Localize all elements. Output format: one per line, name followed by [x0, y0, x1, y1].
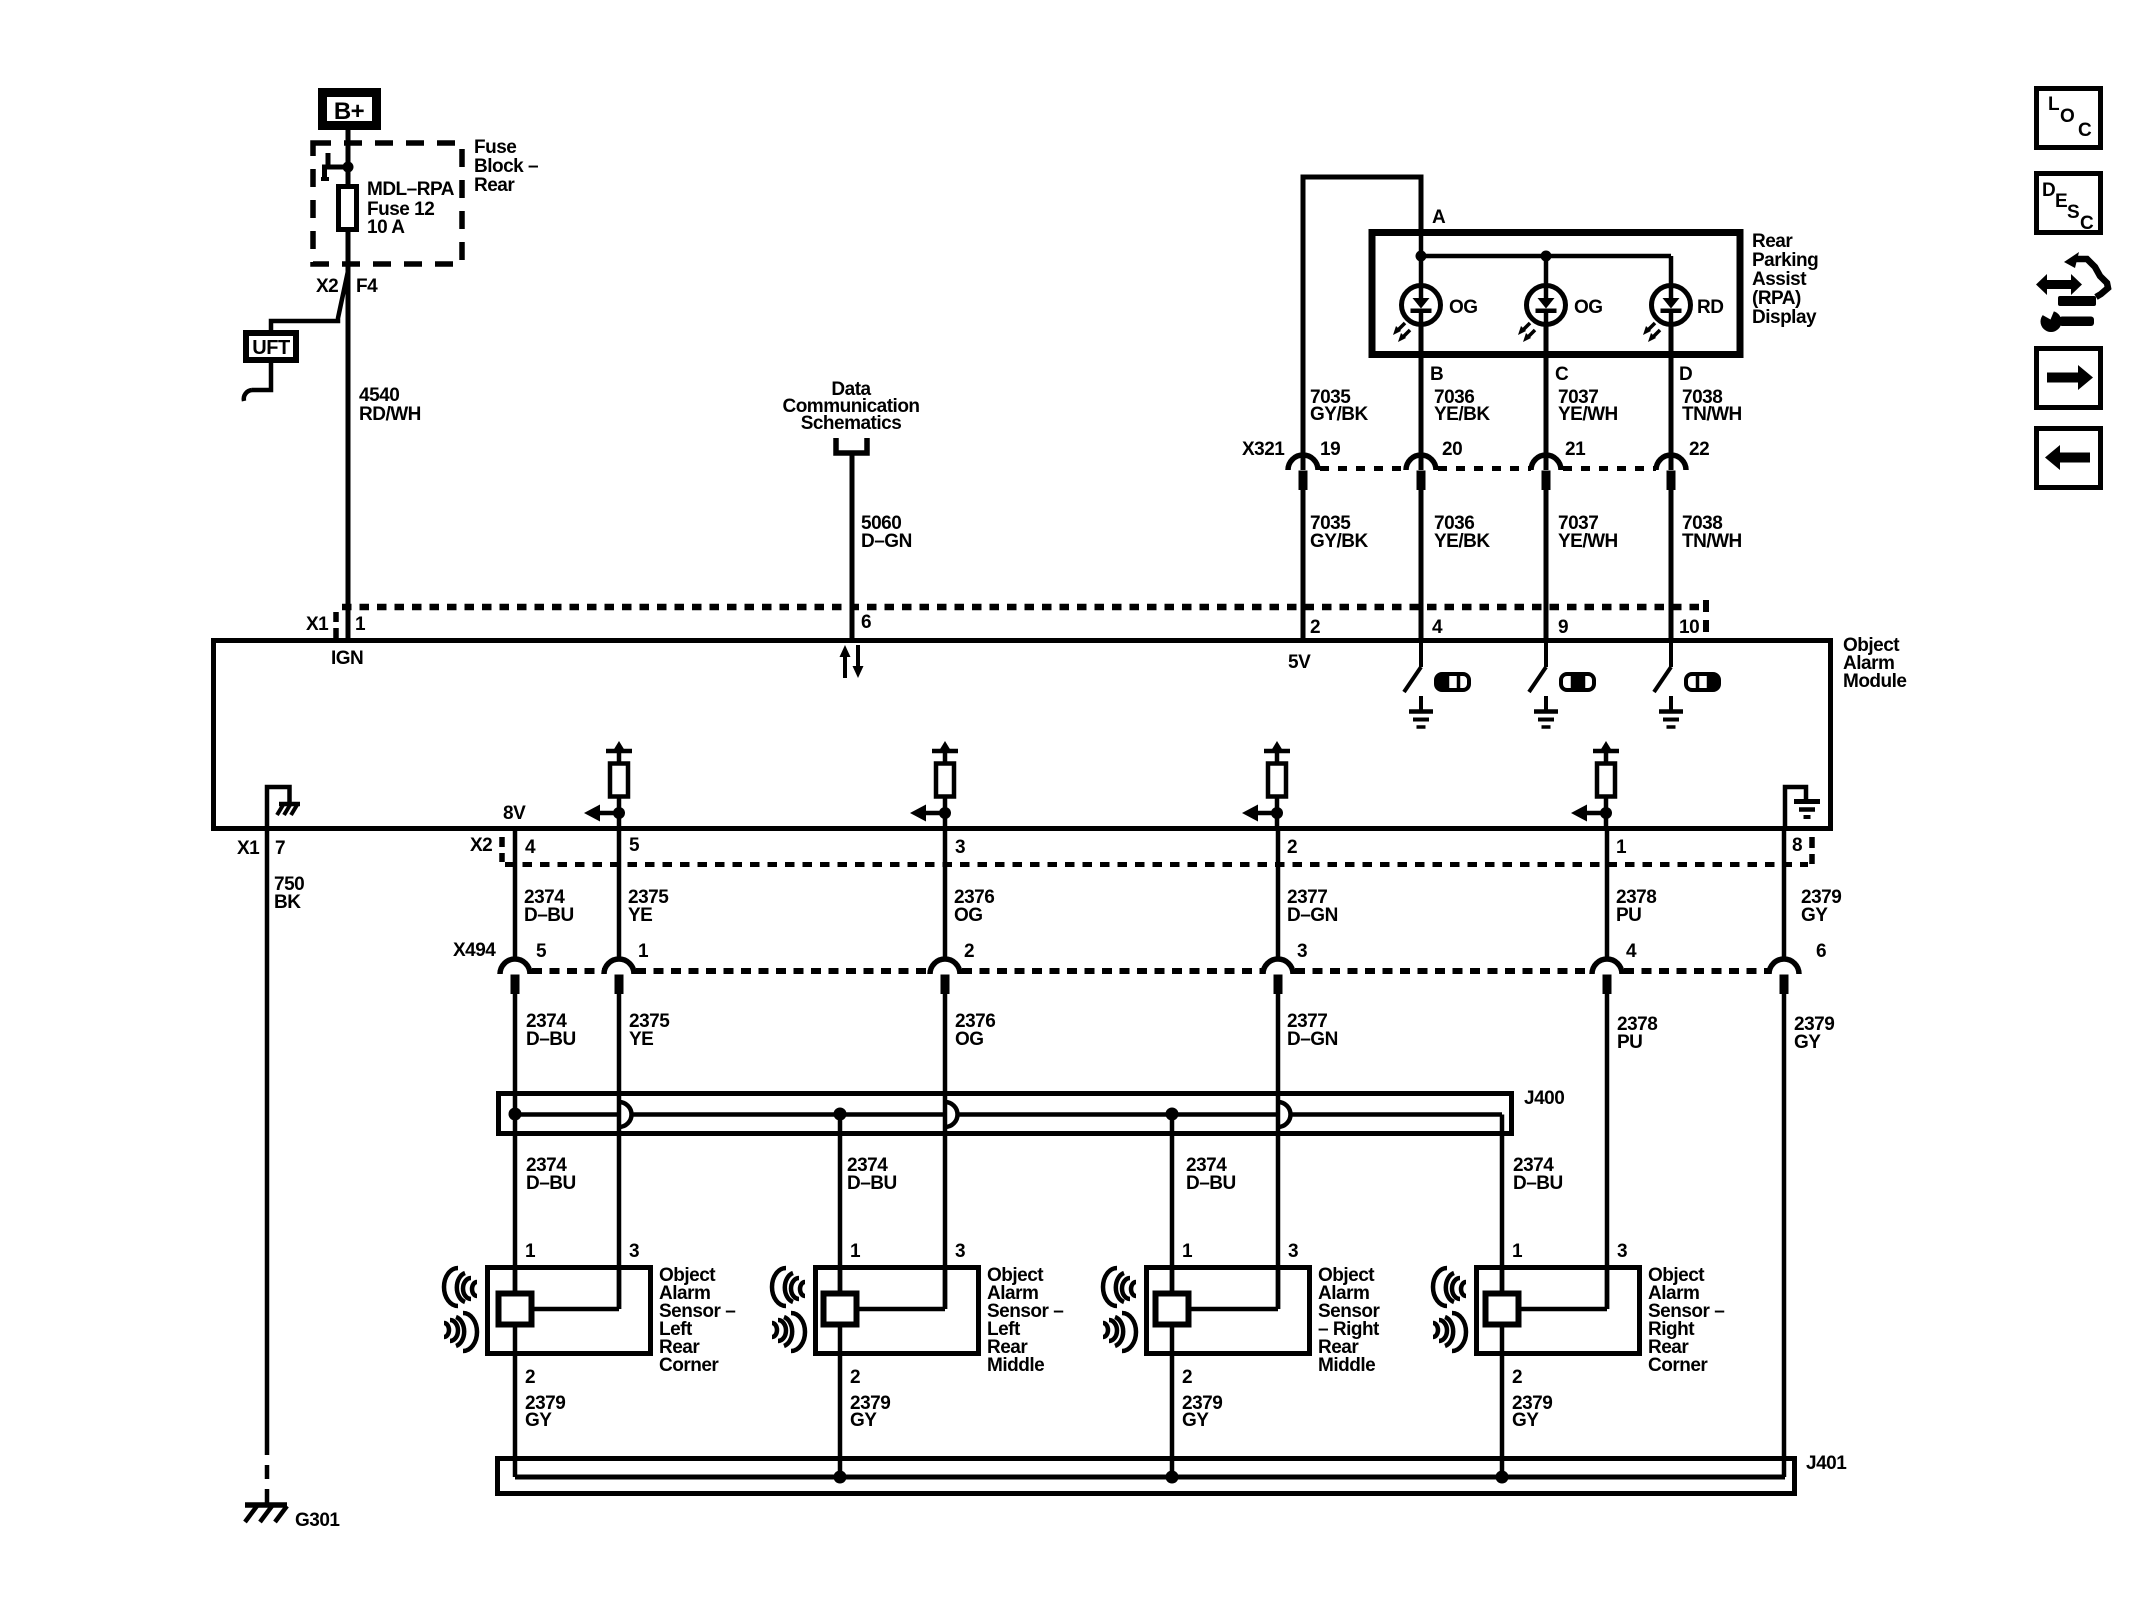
label MDL-RPA Fuse 12 10 A — [367, 179, 455, 238]
svg-text:L: L — [2048, 94, 2060, 115]
pin 2 label sensor Left Rear Corner — [525, 1367, 535, 1388]
svg-text:D: D — [2042, 180, 2056, 201]
junction dot J400 branch sensor 3 — [1166, 1108, 1179, 1121]
svg-text:3: 3 — [629, 1241, 639, 1262]
wire 7038 D display to X321-22 — [1669, 355, 1674, 470]
svg-text:7: 7 — [275, 838, 285, 859]
wire 7035 GY/BK to module — [1301, 488, 1306, 640]
svg-text:GY: GY — [1182, 1410, 1209, 1431]
icon wrench and pointer — [2036, 252, 2108, 332]
svg-text:A: A — [1432, 207, 1446, 228]
pin 8 label X2 — [1792, 835, 1802, 856]
svg-text:PU: PU — [1616, 905, 1641, 926]
label F4 pin — [356, 276, 378, 297]
label 2374 D-BU (X494 row) — [526, 1011, 576, 1050]
svg-text:Middle: Middle — [987, 1355, 1044, 1376]
wire pin1 inside sensor Left Rear Corner — [513, 1265, 518, 1293]
sensor box Object Alarm Sensor - Left Rear Corner — [488, 1268, 651, 1354]
resistor sensor drive 3 with tap arrow — [1242, 741, 1290, 829]
label 2377 D-GN (X2 row) — [1287, 887, 1338, 926]
svg-text:C: C — [2078, 120, 2092, 141]
svg-text:D–GN: D–GN — [1287, 1029, 1338, 1050]
svg-text:D–BU: D–BU — [526, 1029, 576, 1050]
connector X2 right bracket — [1809, 837, 1815, 864]
svg-text:GY: GY — [1512, 1410, 1539, 1431]
pin 2 label sensor Right Rear Middle — [1182, 1367, 1192, 1388]
svg-text:D–BU: D–BU — [1186, 1173, 1236, 1194]
label 7036 YE/BK upper — [1434, 387, 1490, 425]
label 8V — [503, 803, 526, 824]
label 2379 GY (X494 row) — [1794, 1014, 1834, 1053]
svg-text:2: 2 — [525, 1367, 535, 1388]
label 2378 PU (X2 row) — [1616, 887, 1656, 926]
wire 7037 C display to X321-21 — [1544, 355, 1549, 470]
svg-text:X1: X1 — [237, 838, 260, 859]
svg-text:8V: 8V — [503, 803, 526, 824]
resistor sensor drive 4 with tap arrow — [1571, 741, 1619, 829]
svg-text:Module: Module — [1843, 671, 1907, 692]
wire 2379 GY sensor Right Rear Middle to J401 — [1170, 1327, 1175, 1477]
LED lamp OG left (first indicator) — [1393, 286, 1441, 356]
off-page bracket for data link — [836, 438, 867, 453]
pin 3 label sensor Right Rear Middle — [1288, 1241, 1298, 1262]
label 7037 YE/WH upper — [1558, 387, 1618, 425]
connector X494 pin 1 terminal — [604, 941, 649, 994]
wire pin3 inside sensor Left Rear Middle — [856, 1265, 945, 1309]
splice pack J401 housing — [498, 1459, 1795, 1494]
ultrasonic waves icon Left Rear Middle — [772, 1268, 805, 1351]
svg-text:YE/BK: YE/BK — [1434, 404, 1490, 425]
svg-text:8: 8 — [1792, 835, 1802, 856]
resistor sensor drive 1 with tap arrow — [584, 741, 632, 829]
wire 2376 OG module to X494 — [943, 829, 948, 960]
wire UFT stub with hook — [244, 363, 271, 401]
wire 2374 D-BU module to X494 — [513, 829, 518, 960]
label node B — [1430, 364, 1443, 385]
connector X494 dashed gang line — [532, 968, 1769, 974]
connector X321 pin 20 terminal — [1406, 439, 1462, 490]
wire 2375 YE X494 to sensor 1 pin 3 — [617, 992, 622, 1309]
label Object Alarm Module — [1843, 635, 1907, 692]
ultrasonic waves icon Left Rear Corner — [444, 1268, 477, 1351]
label 2374 D-BU (X2 row) — [524, 887, 574, 926]
label 2374 D-BU branch 4 — [1513, 1155, 1563, 1194]
svg-text:9: 9 — [1558, 617, 1568, 638]
label RD — [1697, 297, 1723, 318]
svg-text:C: C — [1555, 364, 1569, 385]
pin 1 label sensor Left Rear Corner — [525, 1241, 536, 1262]
svg-text:Corner: Corner — [659, 1355, 719, 1376]
label 2374 D-BU branch 1 — [526, 1155, 576, 1194]
svg-text:Schematics: Schematics — [801, 413, 902, 434]
svg-text:GY/BK: GY/BK — [1310, 531, 1368, 552]
pin 3 label sensor Right Rear Corner — [1617, 1241, 1627, 1262]
svg-text:OG: OG — [955, 1029, 984, 1050]
wire pin3 inside sensor Right Rear Middle — [1188, 1265, 1278, 1309]
wire pin3 inside sensor Right Rear Corner — [1518, 1265, 1607, 1309]
svg-text:MDL–RPA: MDL–RPA — [367, 179, 455, 200]
LED lamp RD right (third indicator) — [1643, 286, 1691, 356]
svg-text:Block –: Block – — [474, 156, 538, 177]
label 2377 D-GN (X494 row) — [1287, 1011, 1338, 1050]
svg-text:1: 1 — [638, 941, 649, 962]
power symbol B+ battery feed box — [323, 93, 377, 126]
svg-text:TN/WH: TN/WH — [1682, 531, 1742, 552]
svg-text:J400: J400 — [1524, 1088, 1564, 1109]
wire pin1 inside sensor Right Rear Corner — [1500, 1265, 1505, 1293]
pin 2 label sensor Left Rear Middle — [850, 1367, 860, 1388]
wire 2377 D-GN X494 to sensor 3 pin 3 — [1276, 992, 1281, 1309]
wire pin3 inside sensor Left Rear Corner — [531, 1265, 619, 1309]
pin 1 label sensor Left Rear Middle — [850, 1241, 861, 1262]
label X1 top — [306, 614, 329, 635]
label 4540 RD/WH — [359, 385, 421, 425]
junction node to LED2 — [1541, 251, 1552, 262]
svg-text:1: 1 — [525, 1241, 536, 1262]
svg-text:D–GN: D–GN — [861, 531, 912, 552]
svg-text:E: E — [2055, 191, 2068, 212]
svg-text:X2: X2 — [470, 835, 492, 856]
wire 2379 GY sensor Left Rear Corner to J401 — [513, 1327, 518, 1477]
connector X321 pin 22 terminal — [1656, 439, 1709, 490]
svg-text:X494: X494 — [453, 940, 496, 961]
svg-text:2: 2 — [964, 941, 974, 962]
label 2379 GY below sensor Right Rear Corner — [1512, 1393, 1552, 1431]
label 7036 YE/BK lower — [1434, 513, 1490, 552]
svg-text:4: 4 — [1432, 617, 1443, 638]
svg-text:21: 21 — [1565, 439, 1586, 460]
svg-text:2: 2 — [1182, 1367, 1192, 1388]
data link down arrow — [853, 645, 864, 678]
svg-text:GY: GY — [1801, 905, 1828, 926]
connector X1 top right end bracket — [1703, 600, 1709, 632]
svg-text:RD: RD — [1697, 297, 1723, 318]
connector X321 pin 19 terminal — [1288, 439, 1340, 490]
svg-text:GY: GY — [1794, 1032, 1821, 1053]
label text sensor Left Rear Middle — [987, 1265, 1063, 1376]
pin 7 label — [275, 838, 285, 859]
junction dot J401 sensor 4 — [1496, 1471, 1509, 1484]
data link up arrow — [840, 645, 851, 678]
svg-text:Parking: Parking — [1752, 250, 1818, 271]
svg-text:GY: GY — [525, 1410, 552, 1431]
display box Rear Parking Assist RPA Display — [1372, 233, 1740, 355]
svg-text:10 A: 10 A — [367, 217, 405, 238]
wire 2374 D-BU X494 to J400 and sensor 1 pin 1 — [513, 992, 518, 1293]
svg-text:Rear: Rear — [474, 175, 515, 196]
module internal chassis ground (pin X1-7) — [267, 787, 300, 829]
fuse F4 MDL-RPA body — [339, 187, 357, 230]
pin 2 label X1 — [1310, 617, 1320, 638]
switch and mid indicator (pin 9 input) — [1529, 643, 1594, 727]
svg-text:RD/WH: RD/WH — [359, 404, 421, 425]
label 2375 YE (X494 row) — [629, 1011, 670, 1050]
svg-text:D–BU: D–BU — [1513, 1173, 1563, 1194]
sensor transducer square Left Rear Corner — [499, 1294, 532, 1325]
pin 10 label X1 — [1679, 617, 1699, 638]
pin 4 label X2 — [525, 837, 536, 858]
svg-text:4: 4 — [525, 837, 536, 858]
sensor box Object Alarm Sensor - Right Rear Corner — [1477, 1268, 1640, 1354]
svg-text:GY/BK: GY/BK — [1310, 404, 1368, 425]
pin 9 label X1 — [1558, 617, 1568, 638]
svg-text:4: 4 — [1626, 941, 1637, 962]
svg-text:2: 2 — [850, 1367, 860, 1388]
connector X494 pin 4 terminal — [1592, 941, 1637, 994]
svg-text:OG: OG — [1574, 297, 1603, 318]
svg-text:B: B — [1430, 364, 1443, 385]
svg-text:1: 1 — [1512, 1241, 1523, 1262]
svg-text:IGN: IGN — [331, 648, 363, 669]
label node C — [1555, 364, 1569, 385]
label connector X321 — [1242, 439, 1285, 460]
svg-text:Rear: Rear — [1752, 231, 1793, 252]
icon box DESC — [2037, 174, 2101, 235]
wire 2374 D-BU J400 to sensor 2 pin 1 — [838, 1114, 843, 1293]
wire 2374 D-BU J400 to sensor 4 pin 1 — [1500, 1133, 1505, 1293]
label connector X494 — [453, 940, 496, 961]
svg-text:S: S — [2067, 202, 2080, 223]
icon box forward arrow — [2037, 349, 2101, 408]
connector X494 pin 6 terminal — [1769, 941, 1826, 994]
connector X494 pin 2 terminal — [930, 941, 974, 994]
svg-text:3: 3 — [955, 837, 965, 858]
svg-text:Display: Display — [1752, 307, 1817, 328]
splice J400 internal bus wire — [515, 1102, 1502, 1135]
wire pin1 inside sensor Left Rear Middle — [838, 1265, 843, 1293]
label 2379 GY below sensor Right Rear Middle — [1182, 1393, 1222, 1431]
label 7038 TN/WH upper — [1682, 387, 1742, 425]
label 5V — [1288, 652, 1311, 673]
label 2378 PU (X494 row) — [1617, 1014, 1657, 1053]
splice J401 internal bus wire — [515, 1475, 1785, 1480]
wire 7036 YE/BK to module — [1419, 488, 1424, 640]
wire B+ to fuse — [346, 130, 351, 186]
svg-text:2: 2 — [1512, 1367, 1522, 1388]
svg-text:YE: YE — [629, 1029, 653, 1050]
svg-text:10: 10 — [1679, 617, 1699, 638]
svg-text:1: 1 — [355, 614, 366, 635]
wire branch to UFT — [271, 271, 348, 331]
svg-text:J401: J401 — [1806, 1453, 1847, 1474]
svg-text:D–GN: D–GN — [1287, 905, 1338, 926]
label 7035 GY/BK upper — [1310, 387, 1368, 425]
svg-text:O: O — [2060, 106, 2075, 127]
svg-text:3: 3 — [1297, 941, 1307, 962]
svg-text:19: 19 — [1320, 439, 1340, 460]
pin 2 label X2 — [1287, 837, 1297, 858]
svg-text:UFT: UFT — [252, 337, 290, 359]
label X1 bottom — [237, 838, 260, 859]
wire 7036 B display to X321-20 — [1419, 355, 1424, 470]
label 2376 OG (X494 row) — [955, 1011, 995, 1050]
pin 3 label sensor Left Rear Middle — [955, 1241, 965, 1262]
label text sensor Right Rear Middle — [1318, 1265, 1381, 1376]
svg-text:C: C — [2080, 213, 2094, 234]
svg-text:5: 5 — [536, 941, 547, 962]
label 2379 GY below sensor Left Rear Middle — [850, 1393, 890, 1431]
connector X321 pin 21 terminal — [1531, 439, 1586, 490]
wire 2378 PU module to X494 — [1605, 829, 1610, 960]
svg-text:X321: X321 — [1242, 439, 1285, 460]
label 7038 TN/WH lower — [1682, 513, 1742, 552]
wire fuse to module pin X1-1 — [346, 229, 351, 640]
label OG 1 — [1449, 297, 1478, 318]
label Data Communication Schematics — [782, 379, 919, 434]
svg-text:4540: 4540 — [359, 385, 399, 406]
splice pack J400 housing — [499, 1094, 1512, 1134]
wire 750 BK dashed section — [265, 1441, 270, 1509]
svg-text:D: D — [1679, 364, 1692, 385]
icon box LOC — [2037, 89, 2101, 148]
wire 7035 top run — [1303, 177, 1421, 470]
svg-text:3: 3 — [955, 1241, 965, 1262]
pin 6 label X1 — [861, 612, 871, 633]
svg-text:6: 6 — [1816, 941, 1826, 962]
junction dot J401 sensor 3 — [1166, 1471, 1179, 1484]
label IGN — [331, 648, 363, 669]
label node D — [1679, 364, 1692, 385]
pin 5 label X2 — [629, 835, 640, 856]
svg-text:OG: OG — [1449, 297, 1478, 318]
svg-text:D–BU: D–BU — [524, 905, 574, 926]
svg-text:YE/BK: YE/BK — [1434, 531, 1490, 552]
fuse clip hook symbol — [321, 153, 354, 179]
pin 3 label sensor Left Rear Corner — [629, 1241, 639, 1262]
label text sensor Right Rear Corner — [1648, 1265, 1724, 1376]
wire 2379 GY sensor Right Rear Corner to J401 — [1500, 1327, 1505, 1477]
label Rear Parking Assist (RPA) Display — [1752, 231, 1818, 328]
svg-text:GY: GY — [850, 1410, 877, 1431]
svg-text:2: 2 — [1310, 617, 1320, 638]
pin 1 label X2 — [1616, 837, 1627, 858]
wire 5060 D-GN to module pin X1-6 — [850, 453, 855, 640]
module box Object Alarm Module — [214, 641, 1831, 829]
switch and far indicator (pin 10 input) — [1654, 643, 1719, 727]
wire 2379 GY sensor Left Rear Middle to J401 — [838, 1327, 843, 1477]
wire pin1 inside sensor Right Rear Middle — [1170, 1265, 1175, 1293]
switch and near indicator (pin 4 input) — [1404, 643, 1469, 727]
svg-text:5: 5 — [629, 835, 640, 856]
label 2374 D-BU branch 2 — [847, 1155, 897, 1194]
svg-text:OG: OG — [954, 905, 983, 926]
svg-text:22: 22 — [1689, 439, 1709, 460]
svg-text:D–BU: D–BU — [847, 1173, 897, 1194]
svg-text:1: 1 — [850, 1241, 861, 1262]
svg-text:F4: F4 — [356, 276, 378, 297]
junction dot J400 at 2374 feed — [509, 1108, 522, 1121]
sensor box Object Alarm Sensor - Left Rear Middle — [816, 1268, 979, 1354]
connector X2 dashed gang line — [505, 862, 1808, 867]
svg-text:1: 1 — [1182, 1241, 1193, 1262]
svg-text:YE/WH: YE/WH — [1558, 531, 1618, 552]
label 7037 YE/WH lower — [1558, 513, 1618, 552]
resistor sensor drive 2 with tap arrow — [910, 741, 958, 829]
pin 1 label sensor Right Rear Corner — [1512, 1241, 1523, 1262]
ultrasonic waves icon Right Rear Corner — [1433, 1268, 1466, 1351]
junction node wire A to LED1 — [1416, 251, 1427, 262]
svg-text:G301: G301 — [295, 1510, 340, 1531]
label node A — [1432, 207, 1446, 228]
wire 2374 D-BU J400 to sensor 3 pin 1 — [1170, 1114, 1175, 1293]
wire 2377 D-GN module to X494 — [1276, 829, 1281, 960]
svg-text:6: 6 — [861, 612, 871, 633]
label OG 2 — [1574, 297, 1603, 318]
label 750 BK — [274, 874, 304, 913]
label 5060 D-GN — [861, 513, 912, 552]
connector X1 top left end bracket — [333, 612, 339, 638]
label X2 bottom — [470, 835, 492, 856]
connector X1 top dashed gang line — [342, 604, 1700, 611]
connector UFT box — [246, 333, 296, 360]
label 2379 GY below sensor Left Rear Corner — [525, 1393, 565, 1431]
svg-text:BK: BK — [274, 892, 301, 913]
svg-text:YE: YE — [628, 905, 652, 926]
label J400 — [1524, 1088, 1564, 1109]
label 2375 YE (X2 row) — [628, 887, 669, 926]
pin 2 label sensor Right Rear Corner — [1512, 1367, 1522, 1388]
label Fuse Block - Rear — [474, 137, 538, 196]
svg-text:X1: X1 — [306, 614, 329, 635]
sensor box Object Alarm Sensor - Right Rear Middle — [1147, 1268, 1310, 1354]
pin 1 label X1 — [355, 614, 366, 635]
wire 2375 YE module to X494 — [617, 829, 622, 960]
wire 7037 YE/WH to module — [1544, 488, 1549, 640]
label 2376 OG (X2 row) — [954, 887, 994, 926]
svg-text:Assist: Assist — [1752, 269, 1807, 290]
wire 2379 GY X494 to J401 — [1782, 992, 1787, 1477]
pin 1 label sensor Right Rear Middle — [1182, 1241, 1193, 1262]
label 2379 GY (X2 row) — [1801, 887, 1841, 926]
ultrasonic waves icon Right Rear Middle — [1103, 1268, 1136, 1351]
sensor transducer square Right Rear Corner — [1486, 1294, 1519, 1325]
wire 2378 PU X494 to sensor 4 pin 3 — [1605, 992, 1610, 1309]
label J401 — [1806, 1453, 1847, 1474]
wire 2379 GY module to X494 — [1782, 829, 1787, 960]
pin 4 label X1 — [1432, 617, 1443, 638]
svg-text:PU: PU — [1617, 1032, 1642, 1053]
svg-text:5V: 5V — [1288, 652, 1311, 673]
module internal earth ground (pin X2-8) — [1785, 787, 1820, 829]
connector X321 dashed gang line — [1320, 466, 1656, 471]
label 2374 D-BU branch 3 — [1186, 1155, 1236, 1194]
ground G301 chassis symbol — [245, 1505, 287, 1522]
LED lamp OG middle (second indicator) — [1518, 286, 1566, 356]
svg-text:2: 2 — [1287, 837, 1297, 858]
label G301 — [295, 1510, 340, 1531]
svg-text:(RPA): (RPA) — [1752, 288, 1801, 309]
svg-text:X2: X2 — [316, 276, 338, 297]
connector X2 left bracket — [499, 837, 505, 862]
svg-text:20: 20 — [1442, 439, 1462, 460]
svg-text:1: 1 — [1616, 837, 1627, 858]
fuse block dashed outline Fuse Block - Rear — [313, 143, 462, 264]
svg-text:Corner: Corner — [1648, 1355, 1708, 1376]
label X2 connector — [316, 276, 338, 297]
display internal supply wire — [1421, 235, 1671, 291]
label text sensor Left Rear Corner — [659, 1265, 735, 1376]
junction dot J401 sensor 2 — [834, 1471, 847, 1484]
wire 2376 OG X494 to sensor 2 pin 3 — [943, 992, 948, 1309]
junction dot J400 branch sensor 2 — [834, 1108, 847, 1121]
svg-text:Fuse: Fuse — [474, 137, 516, 158]
svg-text:3: 3 — [1288, 1241, 1298, 1262]
svg-text:Middle: Middle — [1318, 1355, 1375, 1376]
svg-text:YE/WH: YE/WH — [1558, 404, 1618, 425]
wire 7038 TN/WH to module — [1669, 488, 1674, 640]
svg-text:D–BU: D–BU — [526, 1173, 576, 1194]
svg-text:3: 3 — [1617, 1241, 1627, 1262]
